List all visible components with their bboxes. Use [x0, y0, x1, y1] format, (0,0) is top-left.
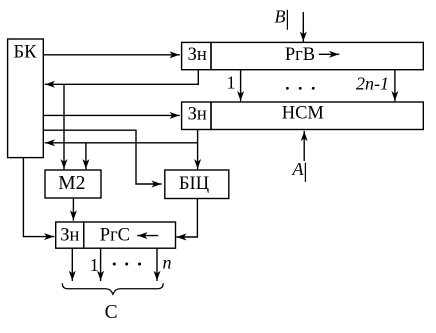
- wire РгС output left: [71, 248, 73, 281]
- wire БК bottom to Зн3: [23, 158, 54, 237]
- wire БК to Зн1: [43, 54, 180, 56]
- wire БК to БЦ: [43, 130, 161, 184]
- svg-text:Зн: Зн: [60, 226, 79, 246]
- svg-text:А: А: [292, 159, 305, 179]
- wire В input arrow: [302, 12, 304, 42]
- svg-text:НСМ: НСМ: [282, 104, 324, 124]
- wire branch down to М2 left input: [63, 84, 65, 169]
- svg-text:БК: БК: [14, 43, 38, 63]
- block БК: [8, 39, 44, 158]
- wire РгС output middle: [100, 248, 102, 281]
- svg-text:Зн: Зн: [188, 105, 207, 125]
- arrow inside РгС: [137, 235, 158, 237]
- svg-text:2n-1: 2n-1: [356, 73, 389, 93]
- svg-text:С: С: [105, 302, 118, 323]
- tick after В: [286, 10, 288, 30]
- svg-text:РгС: РгС: [100, 226, 130, 246]
- wire branch down to М2 right input: [85, 143, 87, 170]
- dots between arrows: [286, 87, 289, 90]
- svg-text:n: n: [163, 253, 172, 273]
- brace under outputs: [62, 283, 163, 294]
- block Зн (РгС row): [56, 222, 84, 248]
- wire М2 to Зн3: [72, 198, 74, 221]
- block Зн (РгВ row): [182, 42, 211, 69]
- dots bottom: [113, 262, 116, 265]
- block БІЦ: [165, 170, 229, 199]
- wire А input arrow: [303, 131, 305, 161]
- wire РгС output right: [156, 248, 158, 281]
- arrow inside РгВ: [319, 53, 340, 55]
- block РгС: [84, 222, 176, 248]
- tick after А: [304, 163, 306, 182]
- svg-text:РгВ: РгВ: [285, 45, 315, 65]
- wire РгВ to НСМ bit 2n-1: [394, 70, 396, 102]
- svg-text:Зн: Зн: [188, 45, 207, 65]
- svg-text:1: 1: [227, 73, 236, 93]
- wire БЦ to РгС: [176, 199, 197, 238]
- svg-text:1: 1: [90, 255, 99, 275]
- wire junction branch to БК: [45, 142, 198, 144]
- block Зн (НСМ row): [182, 102, 211, 130]
- svg-text:В: В: [275, 7, 286, 27]
- block М2: [45, 170, 101, 198]
- wire Зн2 bottom to БЦ top: [197, 130, 199, 170]
- svg-text:М2: М2: [58, 173, 85, 194]
- block РгВ: [211, 42, 423, 69]
- svg-text:БІЦ: БІЦ: [179, 174, 209, 194]
- wire БК to Зн2: [43, 114, 180, 116]
- block НСМ: [211, 102, 423, 130]
- wire Зн1 bottom to БК: [45, 70, 199, 85]
- wire РгВ to НСМ bit 1: [240, 70, 242, 102]
